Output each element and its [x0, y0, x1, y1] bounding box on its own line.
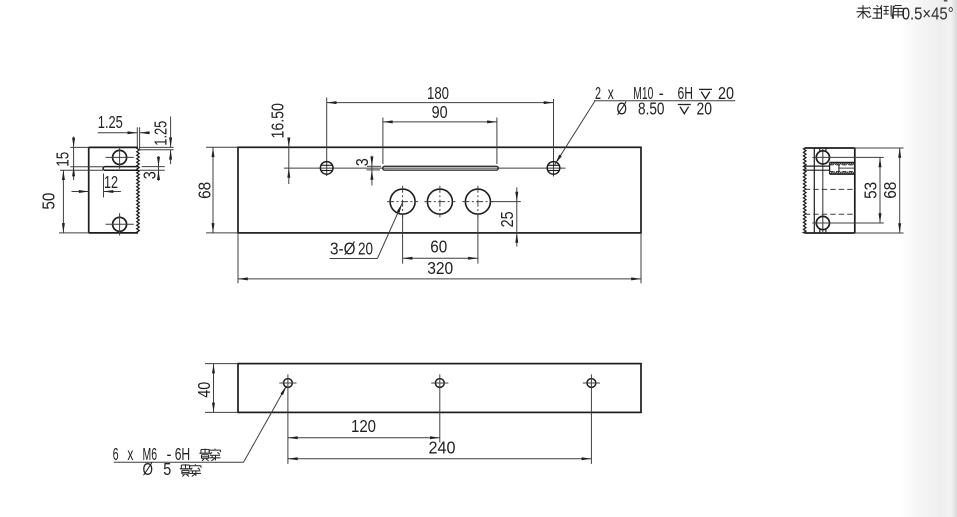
svg-text:6: 6 [113, 444, 119, 464]
svg-text:Ø: Ø [617, 98, 628, 118]
svg-text:20: 20 [697, 98, 713, 118]
svg-text:120: 120 [351, 416, 376, 436]
svg-text:240: 240 [429, 437, 456, 457]
svg-text:20: 20 [358, 238, 373, 258]
svg-text:3: 3 [139, 171, 159, 179]
svg-text:25: 25 [497, 211, 517, 227]
svg-text:Ø: Ø [143, 459, 154, 479]
svg-text:15: 15 [53, 152, 73, 167]
svg-text:1.25: 1.25 [151, 121, 171, 146]
svg-text:320: 320 [427, 258, 453, 278]
svg-text:50: 50 [39, 192, 59, 209]
svg-text:x: x [608, 83, 614, 103]
svg-text:x: x [127, 444, 133, 464]
svg-text:68: 68 [194, 182, 214, 199]
svg-text:6H: 6H [175, 444, 191, 464]
svg-text:3: 3 [352, 158, 372, 166]
svg-text:5: 5 [163, 459, 171, 479]
svg-text:12: 12 [104, 172, 118, 192]
svg-text:2: 2 [595, 83, 601, 103]
svg-text:68: 68 [880, 182, 900, 199]
svg-text:180: 180 [427, 83, 449, 103]
svg-text:53: 53 [861, 182, 881, 199]
svg-text:1.25: 1.25 [98, 112, 123, 132]
svg-text:8.50: 8.50 [638, 98, 665, 118]
svg-text:20: 20 [718, 83, 734, 103]
svg-text:90: 90 [432, 102, 448, 122]
svg-text:3-Ø: 3-Ø [330, 238, 356, 258]
svg-text:6H: 6H [678, 83, 694, 103]
svg-text:16.50: 16.50 [268, 103, 288, 139]
svg-text:40: 40 [194, 382, 214, 398]
svg-text:60: 60 [430, 236, 447, 256]
